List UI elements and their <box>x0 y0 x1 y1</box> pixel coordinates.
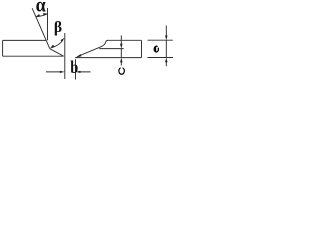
svg-text:α: α <box>36 0 46 17</box>
svg-text:b: b <box>70 56 78 77</box>
svg-text:β: β <box>54 19 62 36</box>
